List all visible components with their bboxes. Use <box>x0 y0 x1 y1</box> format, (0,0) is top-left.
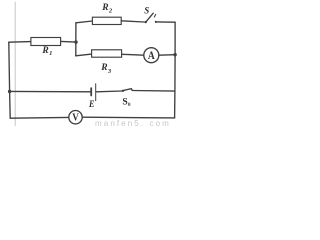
battery E positive plate (long) <box>95 84 97 101</box>
resistor R2 <box>92 17 121 24</box>
battery E negative plate (short) <box>90 88 92 95</box>
svg-text:S0: S0 <box>122 96 131 108</box>
ammeter A <box>144 48 159 63</box>
wire: ammeter to right vertical <box>159 54 175 57</box>
svg-text:S: S <box>144 7 149 17</box>
wire: middle branch to R3 <box>76 54 92 56</box>
junction node: ammeter branch / right vertical <box>173 53 176 56</box>
svg-text:R2: R2 <box>101 3 112 14</box>
wire: bottom row left segment <box>10 116 69 119</box>
svg-text:V: V <box>72 112 79 124</box>
voltmeter V <box>69 111 82 124</box>
svg-text:R3: R3 <box>100 63 111 75</box>
svg-text:E: E <box>88 100 94 110</box>
wire: R2 to switch S <box>121 21 144 22</box>
wire: battery to switch S0 <box>96 90 122 93</box>
wire: R1 left lead <box>9 41 31 44</box>
switch S <box>145 13 157 23</box>
wire: voltmeter to bottom-right corner <box>82 116 174 119</box>
wire: top branch to R2 <box>76 21 93 23</box>
resistor R1 <box>31 38 61 46</box>
junction node: battery row / left vertical <box>8 90 11 93</box>
switch S0 <box>122 89 133 92</box>
wire: left vertical <box>9 42 10 118</box>
wire: switch S0 to right vertical <box>133 90 175 93</box>
svg-text:manfen5. com: manfen5. com <box>95 119 171 126</box>
junction node: parallel branch left <box>74 40 77 43</box>
svg-text:R1: R1 <box>41 46 52 57</box>
wire: R3 to ammeter <box>122 53 144 56</box>
svg-text:A: A <box>148 50 155 62</box>
wire: switch S to right vertical <box>157 21 175 23</box>
wire: R1 right lead <box>61 40 76 43</box>
wire: right vertical <box>174 22 177 118</box>
resistor R3 <box>92 50 122 57</box>
fold line (faint scan crease) <box>14 2 16 126</box>
wire: left riser of parallel section <box>75 23 77 56</box>
wire: battery row left segment <box>10 90 91 92</box>
